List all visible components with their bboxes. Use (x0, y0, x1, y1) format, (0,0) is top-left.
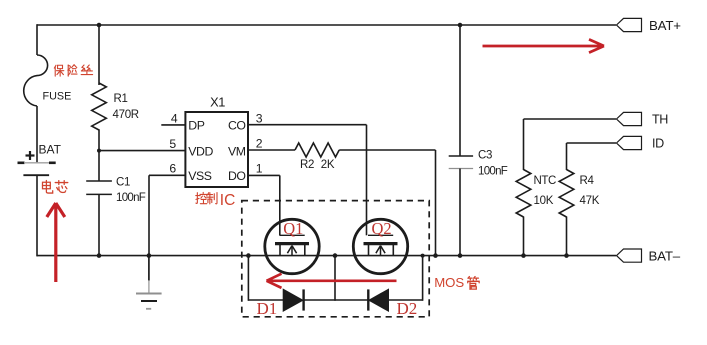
node junction top rail / R1 (97, 23, 102, 28)
wire diode row middle (304, 299, 368, 301)
svg-text:Q2: Q2 (372, 219, 392, 238)
svg-text:R4: R4 (580, 175, 595, 187)
wire left diode branch (246, 253, 251, 300)
svg-text:DO: DO (228, 169, 246, 183)
pin 4 DP (161, 111, 204, 132)
svg-text:1: 1 (256, 162, 263, 176)
fuse FUSE (24, 55, 72, 106)
diode D2 (368, 289, 388, 311)
wire top rail BAT+ (37, 24, 616, 26)
svg-text:ID: ID (652, 137, 664, 151)
svg-text:4: 4 (171, 111, 178, 125)
wire C3 to bottom rail (458, 169, 463, 258)
svg-text:TH: TH (652, 113, 668, 127)
svg-text:100nF: 100nF (478, 166, 508, 178)
wire top rail to R1 (98, 25, 100, 85)
svg-text:470R: 470R (113, 109, 139, 121)
red arrow right (charge current) (483, 39, 605, 52)
pin 2 VM (228, 136, 295, 158)
label Q2 (372, 219, 392, 238)
pin 1 DO (228, 162, 280, 183)
capacitor C3 100nF (449, 150, 508, 178)
svg-text:10K: 10K (534, 195, 554, 207)
resistor R2 2K (295, 143, 339, 171)
pin 6 VSS (149, 162, 212, 183)
label 控制IC (control IC) (196, 192, 236, 209)
label D1 (257, 299, 278, 318)
svg-text:C1: C1 (116, 177, 130, 189)
label Q1 (283, 219, 303, 238)
svg-text:BAT+: BAT+ (649, 18, 681, 33)
ground (136, 256, 162, 309)
svg-text:BAT: BAT (39, 143, 62, 157)
capacitor C1 100nF (86, 177, 146, 205)
wire diode row left (248, 299, 283, 301)
node junction C1 / bottom rail (97, 253, 102, 258)
svg-text:R2: R2 (300, 159, 314, 171)
terminal BAT- (617, 248, 681, 263)
label 电芯 (battery cell) (43, 180, 68, 193)
wire R2 to VM node (339, 150, 435, 256)
resistor R4 47K (559, 170, 599, 218)
wire top rail to C3 (458, 23, 463, 156)
svg-text:47K: 47K (580, 195, 600, 207)
wire NTC to bottom rail (521, 217, 526, 258)
dashed MOS module box (242, 201, 429, 317)
svg-text:VSS: VSS (188, 169, 212, 183)
diode D1 (283, 289, 303, 311)
node junction ground / bottom rail (147, 253, 152, 258)
battery BAT (18, 143, 62, 176)
svg-text:3: 3 (256, 111, 263, 125)
op-amp / control IC U1 X1 (185, 94, 248, 187)
svg-text:D2: D2 (397, 299, 418, 318)
resistor R1 470R (92, 83, 139, 130)
wire ID to R4 (567, 143, 617, 170)
terminal ID (617, 136, 665, 150)
wire left vertical above fuse (36, 24, 38, 55)
node junction VDD (97, 149, 101, 153)
svg-text:100nF: 100nF (116, 192, 146, 204)
wire C1 to bottom rail (98, 194, 100, 256)
wire TH to NTC (524, 119, 617, 170)
svg-text:CO: CO (228, 119, 246, 133)
wire fuse to battery (36, 106, 38, 162)
label 保险丝 (fuse) (54, 65, 92, 76)
wire right diode branch (421, 254, 425, 301)
pin 3 CO (228, 111, 367, 132)
terminal TH (617, 112, 669, 126)
label MOS管 (434, 275, 479, 290)
wire R4 to bottom rail (564, 217, 569, 258)
svg-text:5: 5 (169, 137, 176, 151)
svg-text:IC: IC (220, 192, 236, 209)
svg-text:D1: D1 (257, 299, 278, 318)
svg-text:VDD: VDD (188, 144, 213, 158)
svg-text:NTC: NTC (534, 175, 557, 187)
svg-text:FUSE: FUSE (43, 90, 72, 102)
svg-text:DP: DP (188, 119, 204, 133)
wire diode row right (389, 299, 423, 301)
svg-text:BAT–: BAT– (649, 248, 681, 263)
wire battery to bottom rail (36, 175, 38, 256)
terminal BAT+ (617, 18, 682, 33)
svg-text:X1: X1 (210, 94, 225, 109)
svg-text:2: 2 (256, 136, 263, 150)
label D2 (397, 299, 418, 318)
svg-text:VM: VM (228, 144, 246, 158)
wire middle diode branch (333, 253, 338, 300)
pin 5 VDD (99, 137, 213, 158)
node junction R2 / bottom rail (433, 253, 438, 258)
svg-text:MOS: MOS (434, 275, 464, 290)
svg-text:6: 6 (169, 162, 176, 176)
transistor Q1 (265, 175, 319, 273)
thermistor NTC 10K (516, 170, 556, 218)
svg-text:R1: R1 (114, 93, 128, 105)
svg-text:Q1: Q1 (283, 219, 303, 238)
wire R1 to C1 (98, 129, 100, 181)
red arrow up (current into cell) (47, 203, 65, 282)
transistor Q2 (353, 125, 407, 274)
svg-text:2K: 2K (321, 159, 335, 171)
svg-text:C3: C3 (478, 150, 492, 162)
wire VSS to ground (148, 175, 150, 256)
wire bottom rail BAT- (37, 255, 616, 257)
red arrow left (discharge current) (267, 274, 397, 288)
